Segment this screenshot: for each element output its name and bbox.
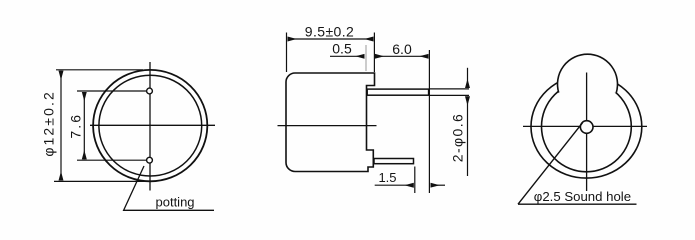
bottom lead (pin) <box>374 159 414 164</box>
1.5 dimension left arrow <box>375 184 414 186</box>
svg-text:φ12±0.2: φ12±0.2 <box>41 90 57 156</box>
dimension line phi12 <box>60 71 62 181</box>
horizontal center line <box>90 124 215 126</box>
svg-text:7.6: 7.6 <box>67 113 83 139</box>
svg-text:2-φ0.6: 2-φ0.6 <box>449 113 465 162</box>
vertical center line back <box>586 73 588 192</box>
bump outline <box>558 54 618 92</box>
dimension line 6.0 <box>375 55 429 57</box>
buzzer body outline <box>286 73 375 172</box>
dimension line 7.6 <box>83 92 85 159</box>
top lead (pin) <box>367 89 428 95</box>
svg-text:1.5: 1.5 <box>378 170 396 185</box>
outer circle back <box>531 75 642 178</box>
inner circle back <box>542 81 632 171</box>
horizontal center line back <box>523 125 647 127</box>
long extension line at lead end <box>428 50 430 193</box>
sound hole label underline <box>518 203 637 205</box>
bump eraser <box>558 54 618 92</box>
inner circle of buzzer front <box>99 75 202 176</box>
phi0.6 up arrow <box>467 96 469 176</box>
extension line right of 9.5 <box>373 33 375 73</box>
svg-text:potting: potting <box>156 194 195 209</box>
extension line bottom lead end <box>414 167 416 194</box>
phi0.6 extension line top <box>429 88 469 90</box>
sound hole leader line <box>518 123 583 204</box>
potting leader line <box>124 166 214 210</box>
bottom pin hole <box>147 157 153 163</box>
1.5 dimension right arrow <box>431 184 445 186</box>
svg-text:0.5: 0.5 <box>332 40 352 56</box>
outer circle of buzzer front <box>93 70 207 181</box>
top pin hole <box>147 88 153 94</box>
extension line phi12 bottom tangent <box>54 180 152 182</box>
svg-text:φ2.5 Sound hole: φ2.5 Sound hole <box>534 189 631 204</box>
0.5 extension line <box>365 45 367 71</box>
horizontal center line of body <box>278 125 377 127</box>
svg-text:9.5±0.2: 9.5±0.2 <box>305 23 354 39</box>
extension line phi12 top tangent <box>56 69 143 71</box>
0.5 arrow <box>330 55 365 57</box>
extension line bottom pin <box>77 159 146 161</box>
phi0.6 down arrow <box>467 68 469 88</box>
vertical center line <box>149 62 151 191</box>
extension line left of 9.5 <box>286 33 288 73</box>
svg-text:6.0: 6.0 <box>392 41 412 57</box>
extension line top pin <box>77 90 146 92</box>
sound hole ring <box>580 121 593 134</box>
phi0.6 extension line bottom <box>429 94 469 96</box>
dimension line 9.5 <box>288 38 374 40</box>
